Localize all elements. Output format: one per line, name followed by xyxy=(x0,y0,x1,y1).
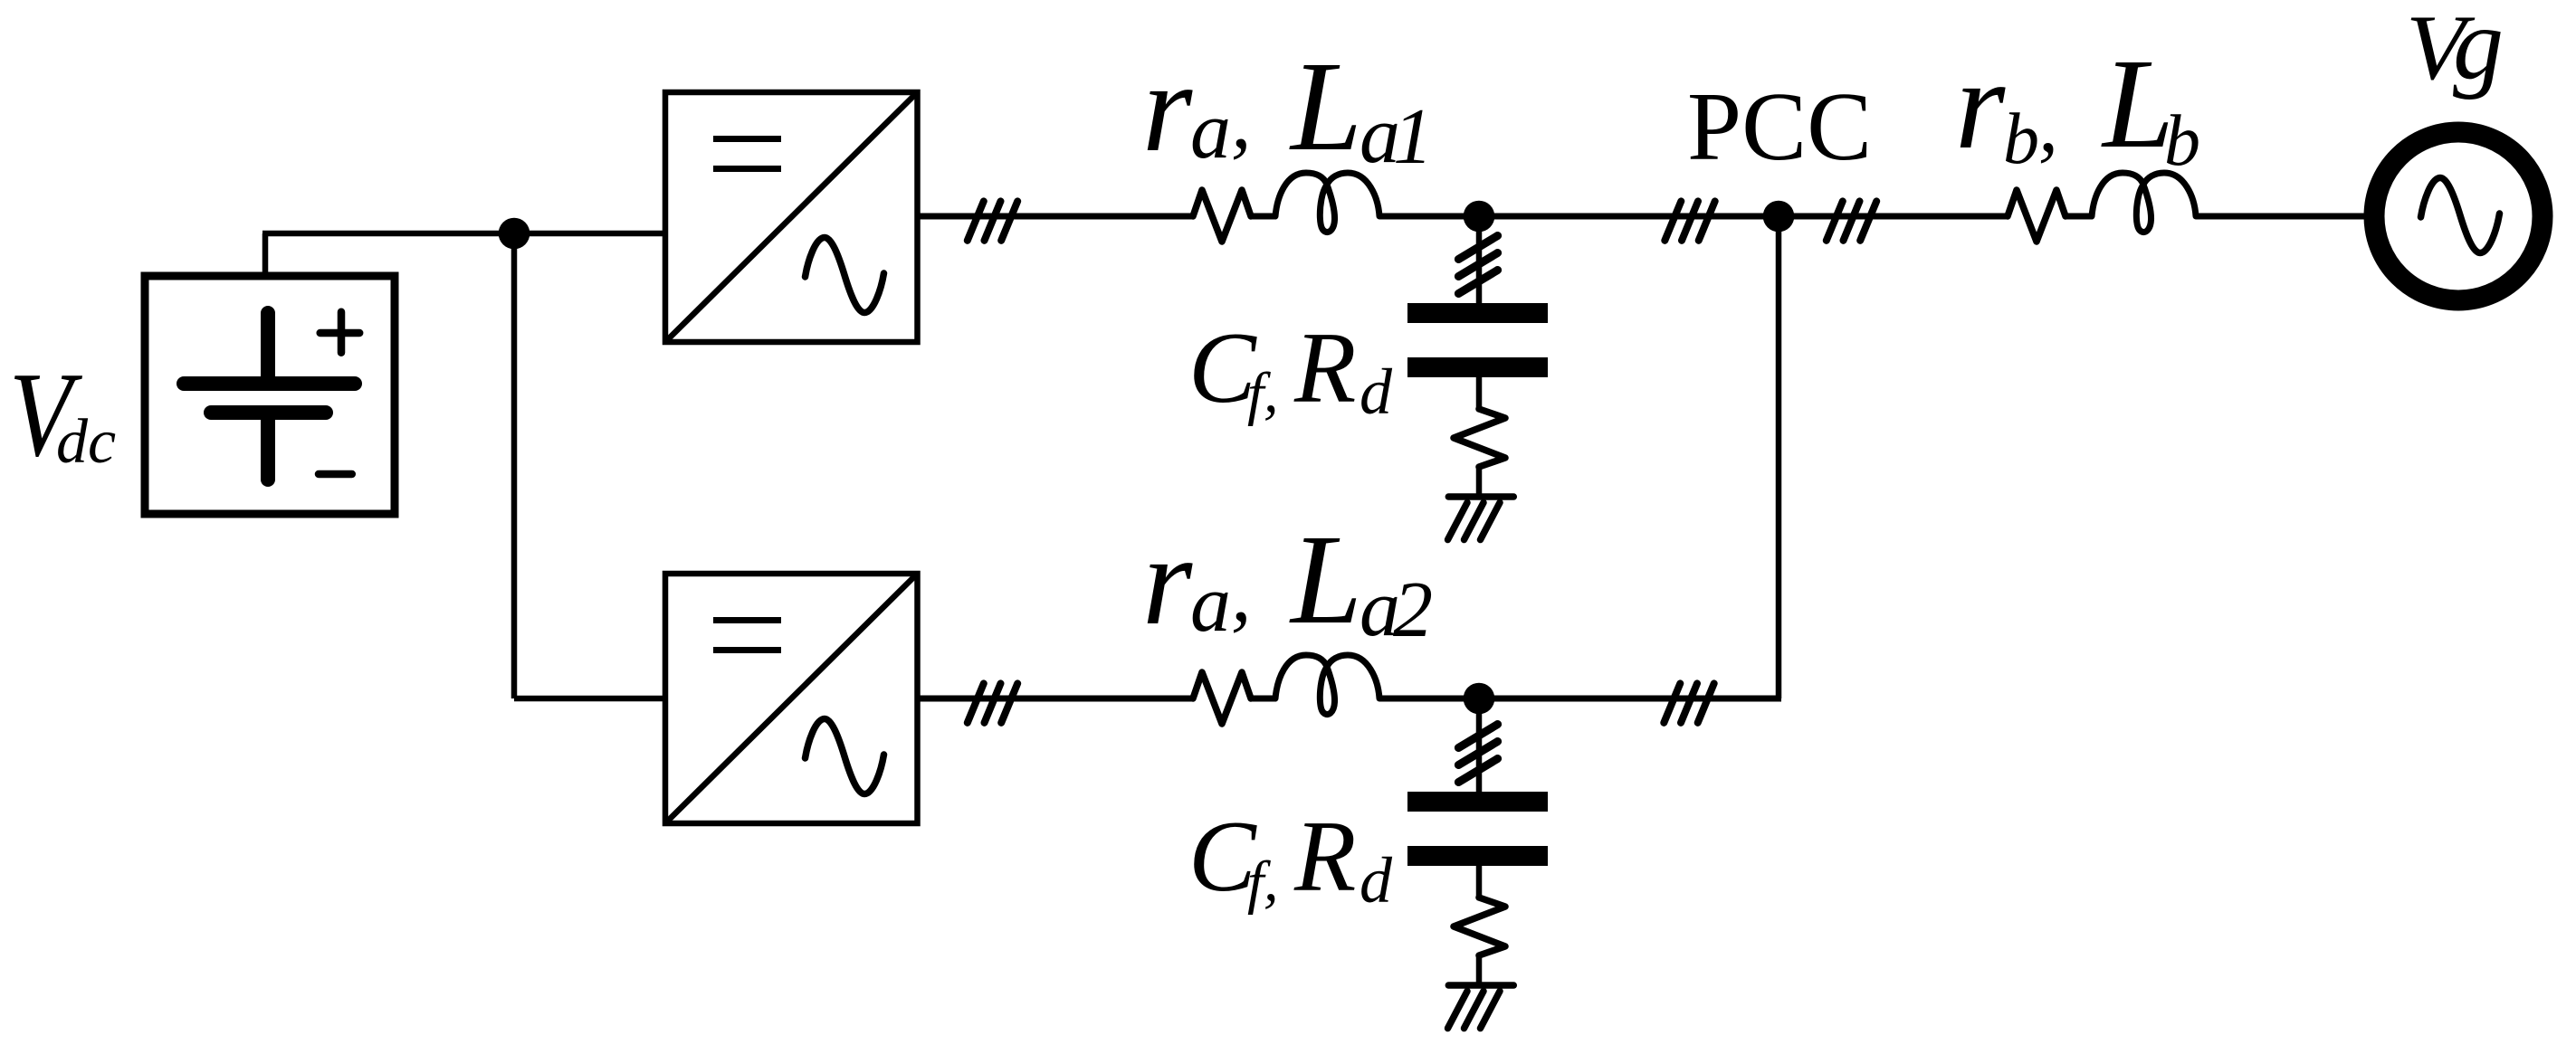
wire: La2 to corner below PCC xyxy=(1379,696,1781,702)
svg-text:d: d xyxy=(1360,356,1393,428)
battery symbol xyxy=(184,313,355,480)
label Cf, Rd lower xyxy=(1188,801,1393,917)
inductor Lb xyxy=(2092,173,2196,233)
wire: U2 output to resistor ra2 xyxy=(917,696,1193,702)
svg-text:g: g xyxy=(2453,0,2504,100)
svg-text:,: , xyxy=(1231,76,1252,166)
wire: La1 to rb across PCC xyxy=(1379,214,2008,220)
wire: ra1 to La1 xyxy=(1251,214,1276,220)
wire: rb to Lb xyxy=(2066,214,2093,220)
wire: U1 output to resistor ra1 xyxy=(917,214,1193,220)
minus sign xyxy=(319,470,352,479)
svg-text:L: L xyxy=(1289,34,1362,177)
three-phase marker left of PCC xyxy=(1665,201,1714,240)
svg-text:r: r xyxy=(1142,508,1193,651)
label PCC xyxy=(1687,73,1872,181)
svg-text:L: L xyxy=(2101,32,2174,175)
svg-text:r: r xyxy=(1142,35,1193,178)
three-phase marker U2 output xyxy=(968,683,1017,722)
resistor rb xyxy=(2008,190,2066,242)
svg-text:dc: dc xyxy=(56,407,116,477)
svg-text:b: b xyxy=(2003,100,2039,179)
svg-text:R: R xyxy=(1293,801,1356,913)
capacitor Cf1 + resistor Rd1 shunt branch xyxy=(1407,216,1548,540)
wire: PCC down to lower line corner xyxy=(1776,216,1782,698)
wire: dc bus riser from Vdc box top xyxy=(262,233,269,276)
inductor La1 xyxy=(1275,173,1379,233)
svg-text:,: , xyxy=(1264,848,1279,914)
svg-text:,: , xyxy=(1231,549,1252,639)
inductor La2 xyxy=(1275,655,1379,715)
three-phase marker on lower line right xyxy=(1664,683,1713,722)
inverter U1 xyxy=(665,92,918,342)
node PCC dot xyxy=(1763,201,1795,233)
label rb, Lb xyxy=(1955,32,2200,181)
wire: to inverter U2 input xyxy=(514,696,665,702)
wire: ra2 to La2 xyxy=(1251,696,1276,702)
svg-text:L: L xyxy=(1289,508,1362,651)
wire: Lb to Vg xyxy=(2196,214,2376,220)
label Vg xyxy=(2406,0,2504,100)
label ra, La1 xyxy=(1142,34,1433,181)
three-phase marker right of PCC xyxy=(1827,201,1876,240)
svg-text:2: 2 xyxy=(1393,566,1433,654)
svg-text:PCC: PCC xyxy=(1687,73,1872,181)
svg-text:d: d xyxy=(1360,844,1393,917)
wire: node A to inverter U1 input xyxy=(514,231,665,237)
resistor ra1 xyxy=(1193,190,1251,242)
svg-text:1: 1 xyxy=(1393,93,1433,181)
ac source Vg circle xyxy=(2374,132,2543,300)
label ra, La2 xyxy=(1142,508,1433,654)
svg-text:r: r xyxy=(1955,33,2006,176)
plus sign xyxy=(320,312,360,353)
capacitor Cf2 + resistor Rd2 shunt branch xyxy=(1407,698,1548,1029)
label Cf, Rd upper xyxy=(1188,312,1393,428)
svg-text:,: , xyxy=(1264,359,1279,425)
svg-text:R: R xyxy=(1293,312,1356,424)
wire: dc bus horizontal to node A xyxy=(262,231,514,237)
svg-text:,: , xyxy=(2038,81,2058,169)
svg-text:a: a xyxy=(1190,86,1231,176)
dc source box Vdc xyxy=(145,276,395,514)
node B junction dot xyxy=(1464,201,1495,233)
label Vdc xyxy=(9,347,116,481)
wire: node A down to lower branch xyxy=(511,233,518,698)
inverter U2 xyxy=(665,574,918,823)
node A junction dot xyxy=(499,218,530,250)
three-phase marker U1 output xyxy=(968,201,1017,240)
svg-text:a: a xyxy=(1190,559,1231,649)
resistor ra2 xyxy=(1193,672,1251,724)
node C junction dot xyxy=(1464,683,1495,715)
svg-text:b: b xyxy=(2164,101,2200,181)
